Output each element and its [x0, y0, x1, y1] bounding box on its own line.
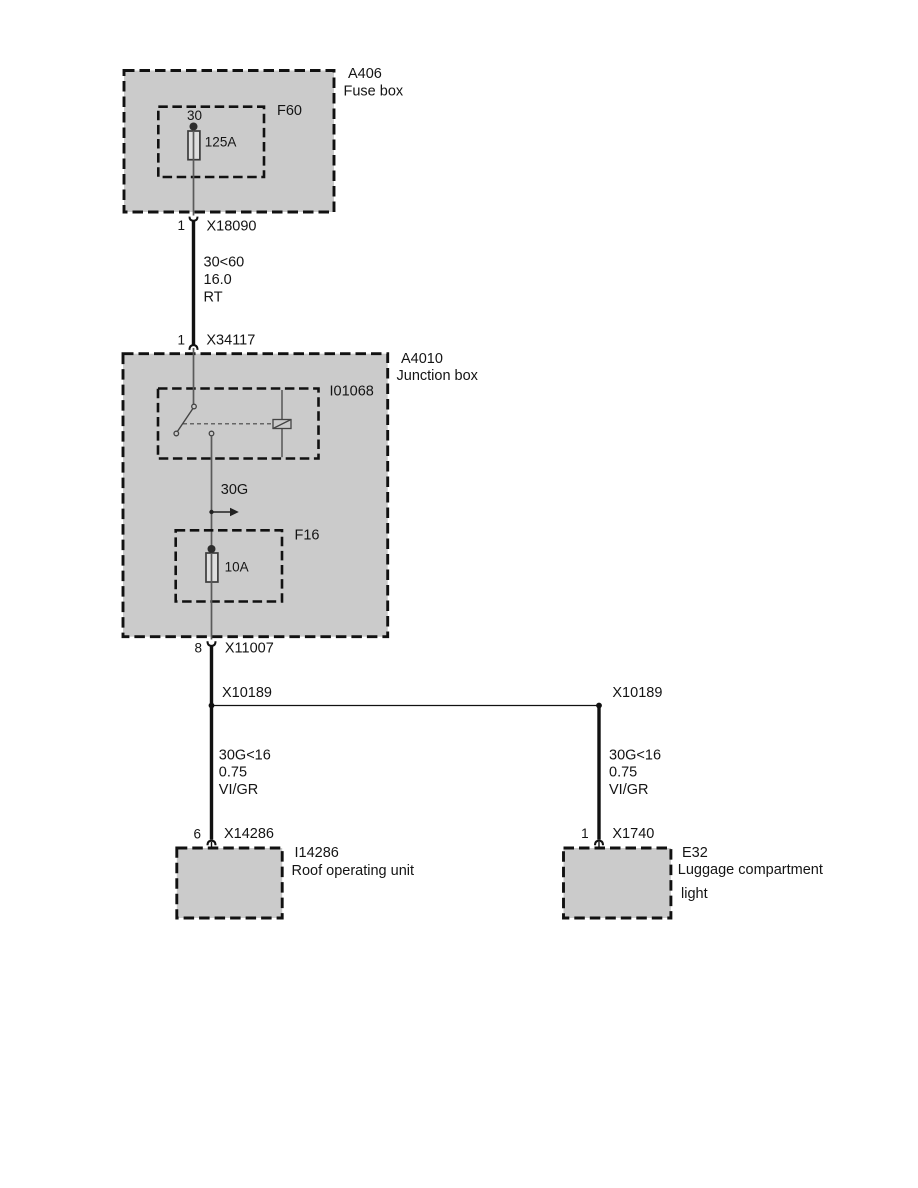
- svg-text:30: 30: [187, 108, 202, 123]
- svg-text:X34117: X34117: [206, 332, 255, 348]
- svg-text:Luggage compartment: Luggage compartment: [678, 862, 823, 878]
- svg-text:I14286: I14286: [295, 845, 339, 861]
- svg-text:F60: F60: [277, 103, 302, 119]
- svg-text:X10189: X10189: [222, 685, 272, 701]
- svg-text:Junction box: Junction box: [397, 368, 479, 384]
- svg-text:1: 1: [177, 218, 185, 233]
- svg-text:6: 6: [193, 826, 201, 841]
- svg-text:A406: A406: [348, 66, 382, 82]
- svg-text:1: 1: [581, 826, 589, 841]
- svg-text:light: light: [681, 886, 708, 902]
- svg-text:Fuse box: Fuse box: [344, 84, 404, 100]
- svg-text:30G: 30G: [221, 482, 248, 498]
- svg-text:X18090: X18090: [207, 218, 257, 234]
- svg-text:E32: E32: [682, 845, 708, 861]
- svg-text:X1740: X1740: [612, 826, 654, 842]
- svg-text:1: 1: [177, 332, 185, 347]
- svg-text:X11007: X11007: [225, 640, 274, 656]
- svg-text:VI/GR: VI/GR: [609, 782, 648, 798]
- svg-text:16.0: 16.0: [204, 272, 232, 288]
- svg-text:30G<16: 30G<16: [609, 747, 661, 763]
- svg-text:I01068: I01068: [330, 384, 374, 400]
- svg-text:0.75: 0.75: [219, 765, 247, 781]
- svg-text:8: 8: [194, 641, 202, 656]
- svg-text:A4010: A4010: [401, 351, 443, 367]
- svg-text:30G<16: 30G<16: [219, 747, 271, 763]
- svg-text:30<60: 30<60: [204, 255, 245, 271]
- svg-text:125A: 125A: [205, 135, 237, 150]
- svg-text:10A: 10A: [225, 560, 249, 575]
- svg-text:F16: F16: [295, 527, 320, 543]
- svg-text:VI/GR: VI/GR: [219, 782, 258, 798]
- svg-text:Roof operating unit: Roof operating unit: [292, 863, 415, 879]
- svg-text:0.75: 0.75: [609, 765, 637, 781]
- svg-text:X14286: X14286: [224, 826, 274, 842]
- svg-text:RT: RT: [204, 290, 223, 306]
- svg-text:X10189: X10189: [612, 685, 662, 701]
